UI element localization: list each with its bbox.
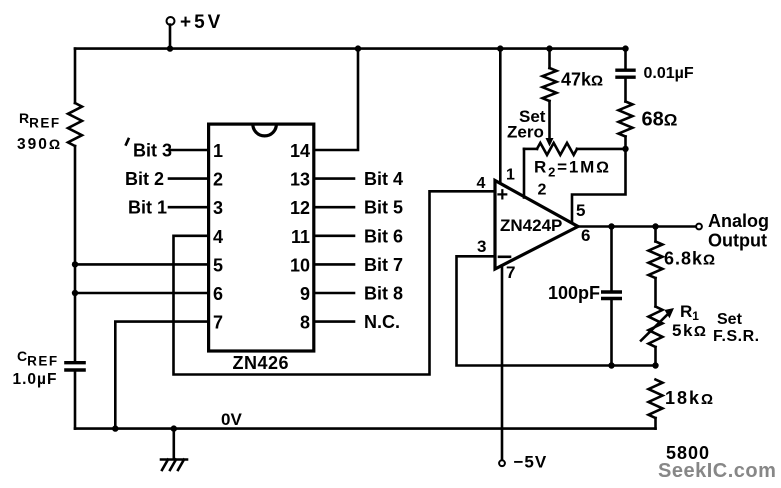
svg-text:1.0µF: 1.0µF: [13, 371, 58, 388]
svg-text:2: 2: [213, 170, 223, 190]
terminal -5V: [499, 460, 505, 466]
tick mark before Bit 3: [126, 139, 129, 145]
label minus input: [499, 255, 510, 258]
wire 0V rail: [75, 427, 656, 430]
pin 1 wire to +5V: [499, 49, 502, 183]
wire bit input pin 3: [169, 206, 209, 209]
potentiometer R1 5k: [649, 307, 663, 348]
svg-text:Bit 8: Bit 8: [364, 284, 403, 304]
svg-text:ZN424P: ZN424P: [500, 216, 562, 235]
wire pin 10 stub: [314, 263, 354, 266]
resistor 6.8k: [654, 227, 657, 242]
svg-text:Bit 4: Bit 4: [364, 169, 403, 189]
ground: [171, 425, 177, 431]
capacitor 100pF: [610, 227, 613, 291]
wire feedback to pin 5: [572, 149, 626, 221]
wire +5V top rail: [75, 47, 626, 50]
wire IC pin6 to Rref column: [75, 292, 209, 295]
op-amp U2 ZN424P: [495, 181, 578, 270]
wire pin 11 stub: [314, 235, 354, 238]
wire R2 left to op-amp pin2: [523, 149, 526, 198]
svg-text:7: 7: [506, 263, 515, 282]
wire pin 8 stub: [314, 320, 354, 323]
resistor 68 ohm: [624, 77, 627, 101]
svg-text:1: 1: [213, 141, 223, 161]
svg-text:4: 4: [213, 227, 223, 247]
svg-text:5: 5: [576, 201, 585, 220]
svg-text:9: 9: [300, 284, 310, 304]
svg-text:5kΩ: 5kΩ: [672, 321, 707, 340]
svg-text:8: 8: [300, 313, 310, 333]
svg-text:Bit 5: Bit 5: [364, 198, 403, 218]
svg-text:390Ω: 390Ω: [17, 136, 62, 153]
svg-text:47kΩ: 47kΩ: [561, 70, 603, 90]
svg-text:4: 4: [477, 175, 486, 192]
svg-text:3: 3: [477, 237, 486, 256]
node R2/68R junction: [622, 146, 628, 152]
wire pin 9 stub: [314, 292, 354, 295]
wire pin 13 stub: [314, 177, 354, 180]
wire IC pin14 to +5V rail: [314, 49, 358, 150]
+5V terminal: [167, 17, 175, 25]
IC U1 ZN426 DAC: [209, 124, 314, 351]
svg-text:13: 13: [290, 170, 310, 190]
svg-text:+: +: [497, 184, 509, 206]
capacitor CREF 1.0uF: [64, 363, 86, 370]
svg-text:F.S.R.: F.S.R.: [713, 328, 760, 345]
svg-text:2: 2: [538, 182, 547, 199]
svg-text:14: 14: [290, 141, 310, 161]
resistor RREF 390ohm: [74, 49, 77, 103]
capacitor 0.01uF: [624, 49, 627, 69]
svg-text:6.8kΩ: 6.8kΩ: [664, 249, 716, 269]
wiper arrow Set Zero: [548, 101, 551, 140]
svg-text:Bit 6: Bit 6: [364, 226, 403, 246]
svg-text:6: 6: [581, 226, 590, 245]
svg-text:Bit 3: Bit 3: [133, 141, 172, 161]
wire bit input pin 2: [169, 177, 209, 180]
svg-text:N.C.: N.C.: [364, 312, 400, 332]
svg-text:18kΩ: 18kΩ: [665, 388, 715, 408]
svg-text:0V: 0V: [221, 410, 242, 429]
svg-text:−5V: −5V: [514, 453, 548, 472]
potentiometer R2 1M: [524, 148, 537, 151]
resistor 47k: [548, 49, 551, 68]
wire IC pin4 to op-amp noninverting input: [174, 191, 496, 374]
svg-text:+5V: +5V: [180, 12, 223, 33]
svg-text:7: 7: [213, 313, 223, 333]
node +5V junction: [167, 45, 173, 51]
resistor 18k: [649, 380, 663, 419]
svg-text:Zero: Zero: [507, 123, 544, 142]
svg-text:6: 6: [213, 284, 223, 304]
svg-text:10: 10: [290, 255, 310, 275]
svg-text:R2=1MΩ: R2=1MΩ: [534, 158, 611, 180]
svg-text:Set: Set: [717, 311, 743, 328]
svg-text:100pF: 100pF: [548, 283, 600, 303]
arrow R1 wiper: [641, 313, 669, 341]
wire op-amp pin3 to lower rail: [457, 256, 656, 365]
svg-text:68Ω: 68Ω: [642, 109, 678, 131]
wire bit input pin 1: [169, 149, 209, 152]
svg-text:12: 12: [290, 198, 310, 218]
svg-text:ZN426: ZN426: [233, 353, 290, 373]
svg-text:3: 3: [213, 198, 223, 218]
wire Rref column down to Cref: [74, 146, 77, 361]
svg-text:1: 1: [506, 167, 515, 184]
svg-text:5: 5: [213, 255, 223, 275]
wire output to Analog Output: [578, 225, 695, 228]
terminal Analog Output: [696, 224, 702, 230]
wire IC pin5 to Rref column: [75, 263, 209, 266]
svg-text:11: 11: [291, 227, 310, 247]
svg-text:Bit 7: Bit 7: [364, 255, 403, 275]
wire op-amp pin7 to -5V: [501, 266, 504, 461]
wire pin 12 stub: [314, 206, 354, 209]
svg-text:Bit 1: Bit 1: [128, 198, 167, 218]
svg-text:0.01µF: 0.01µF: [644, 65, 694, 82]
svg-text:Analog: Analog: [708, 211, 769, 231]
svg-text:SeekIC.com: SeekIC.com: [658, 460, 776, 482]
wire IC pin7 to 0V: [115, 322, 208, 429]
svg-text:Bit 2: Bit 2: [125, 169, 164, 189]
svg-text:Output: Output: [708, 231, 767, 251]
